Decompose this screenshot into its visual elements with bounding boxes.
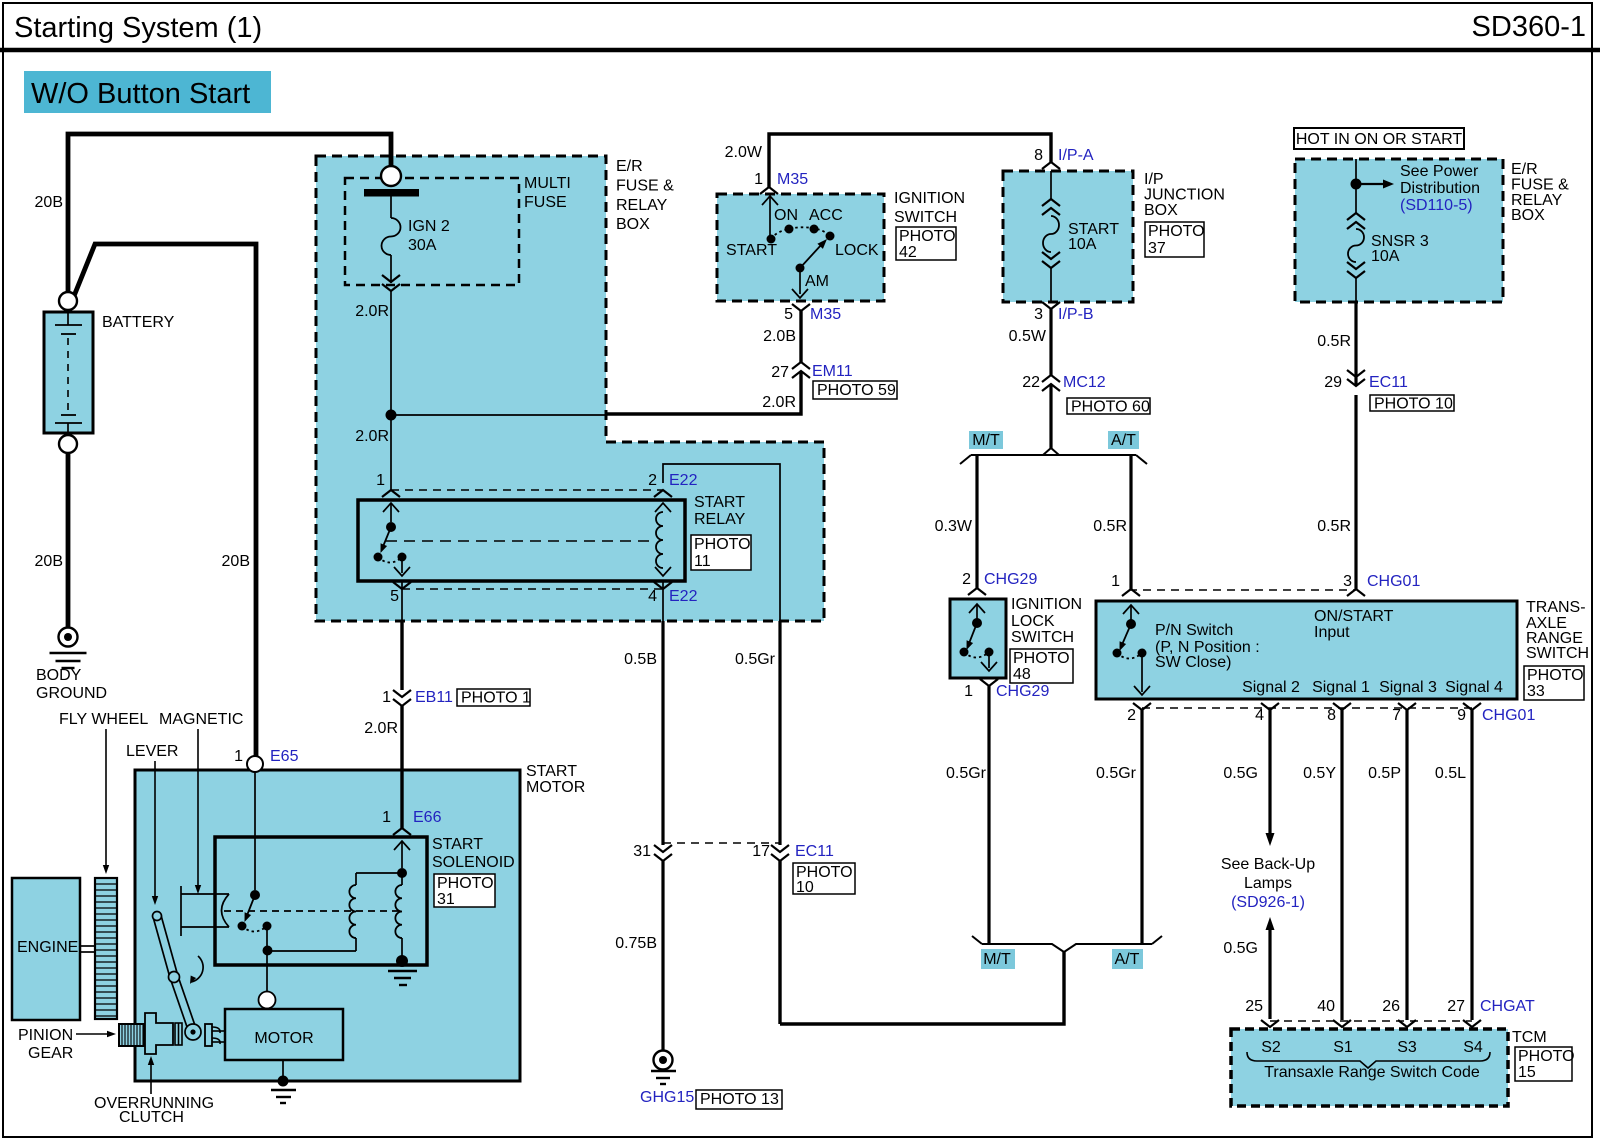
title separator bar [0,48,1600,53]
fuse IGN 2 label [408,218,450,254]
engine-flywheel link [80,946,95,952]
svg-text:0.5L: 0.5L [1435,765,1466,782]
svg-text:0.5W: 0.5W [1009,328,1047,345]
svg-text:PHOTO 59: PHOTO 59 [817,382,896,399]
svg-text:I/P-A: I/P-A [1058,147,1094,164]
transaxle pin 1 [1111,573,1140,596]
svg-text:1: 1 [376,472,385,489]
wire: EB11 to E66 (2.0R) [400,706,403,828]
svg-text:3: 3 [1343,573,1352,590]
M/T A/T option split [960,448,1147,464]
P/N switch internals [1113,605,1151,695]
SNSR 3 fuse feed [1351,159,1362,213]
start relay pin 4 / E22 [648,581,697,621]
svg-text:CHG01: CHG01 [1367,573,1420,590]
svg-text:FLY WHEEL: FLY WHEEL [59,711,148,728]
wire: pin4 to back-up lamps (0.5G) [1266,710,1275,846]
svg-text:BOX: BOX [1144,202,1178,219]
svg-text:BOX: BOX [616,216,650,233]
svg-text:I/P-B: I/P-B [1058,306,1094,323]
svg-text:M35: M35 [810,306,841,323]
wire: MC12 to M/T-A/T split [1049,384,1052,448]
OVERRUNNING CLUTCH label [94,1056,214,1126]
E/R fuse & relay box (left, L-shaped, dashed) [316,156,824,621]
svg-text:37: 37 [1148,240,1166,257]
svg-text:ACC: ACC [809,207,843,224]
start relay pin line (top, dashed) [391,489,663,491]
ENGINE label [17,939,78,956]
svg-text:27: 27 [771,364,789,381]
relay internal dashed link [386,540,655,542]
relay coil [655,503,671,576]
wire label 2.0B [763,328,796,345]
wire label 0.5Y [1303,765,1336,782]
svg-text:7: 7 [1392,707,1401,724]
svg-text:FUSE &: FUSE & [1511,177,1569,194]
PHOTO 10 box (EC11-17) [793,863,855,896]
wire label 0.3W [935,518,973,535]
svg-text:MOTOR: MOTOR [526,779,585,796]
svg-text:E/R: E/R [1511,161,1538,178]
svg-text:20B: 20B [222,553,250,570]
svg-text:2.0R: 2.0R [355,303,389,320]
start relay pin 2 / E22 [648,472,697,497]
svg-text:GROUND: GROUND [36,685,107,702]
fuse START 10A label [1068,221,1119,253]
wire label 0.5P [1368,765,1401,782]
motor terminal [259,992,276,1009]
wire label 0.5G [1223,765,1258,782]
svg-text:E66: E66 [413,809,442,826]
svg-text:GEAR: GEAR [28,1045,73,1062]
wire label 0.5R (to CHG01) [1317,518,1351,535]
svg-text:RELAY: RELAY [694,511,746,528]
multi fuse box (dashed) [345,178,519,285]
wire label 0.5W [1009,328,1047,345]
svg-text:SWITCH: SWITCH [1526,645,1589,662]
TCM box (dashed) [1231,1029,1508,1106]
connector MC12 pin 22 [1022,374,1106,391]
wire: junction to EM11 (2.0R) [391,371,801,415]
P/N switch label [1155,622,1260,671]
svg-text:SWITCH: SWITCH [894,209,957,226]
A/T tag (bottom) [1112,949,1143,969]
START RELAY label [694,494,746,528]
svg-text:MC12: MC12 [1063,374,1106,391]
svg-text:S3: S3 [1397,1039,1417,1056]
svg-text:30A: 30A [408,237,437,254]
svg-text:W/O Button Start: W/O Button Start [31,78,250,110]
wire label 2.0R (EM11) [762,394,796,411]
connector EC11 pin 29 [1324,370,1408,391]
wire: battery negative to body ground (20B) [66,453,71,629]
transaxle pin 7 [1392,703,1416,724]
wire label 20B (to start motor) [222,553,250,570]
PHOTO 1 box [457,689,531,707]
connector M35 pin 5 [784,304,841,323]
svg-text:(SD110-5): (SD110-5) [1400,197,1473,214]
svg-text:BATTERY: BATTERY [102,314,175,331]
body ground label [36,667,107,702]
wire label 2.0R (EB11) [364,720,398,737]
I/P junction box [1003,171,1133,302]
svg-text:FUSE: FUSE [524,194,567,211]
connector CHG29 pin 1 [964,679,1049,700]
svg-text:S1: S1 [1333,1039,1353,1056]
svg-text:P/N Switch: P/N Switch [1155,622,1233,639]
svg-text:5: 5 [390,588,399,605]
svg-text:10A: 10A [1371,248,1400,265]
svg-text:0.5G: 0.5G [1223,765,1258,782]
PHOTO 15 box [1515,1047,1575,1081]
transaxle pin 3 / CHG01 [1343,573,1420,596]
svg-text:I/P: I/P [1144,171,1164,188]
ignition lock switch internals [960,604,998,671]
svg-text:PHOTO: PHOTO [899,228,956,245]
wire label 2.0R [355,303,389,320]
svg-text:ON: ON [774,207,798,224]
svg-text:EC11: EC11 [795,843,834,860]
MULTI FUSE label [524,175,571,211]
svg-text:RELAY: RELAY [616,197,668,214]
title: Starting System (1) [14,12,262,44]
TCM pin line (dashed) [1270,1020,1472,1022]
svg-text:A/T: A/T [1111,432,1136,449]
svg-text:0.5Gr: 0.5Gr [1096,765,1137,782]
connector I/P-B pin 3 [1034,302,1093,323]
page code SD360-1 [1472,11,1586,43]
svg-text:E22: E22 [669,588,698,605]
svg-text:SD360-1: SD360-1 [1472,11,1586,43]
transaxle pin line (top, dashed) [1129,589,1356,591]
TCM pin 26 [1382,998,1416,1027]
MAGNETIC label [159,711,243,894]
svg-text:CHG01: CHG01 [1482,707,1535,724]
IGNITION LOCK SWITCH label [1011,596,1082,646]
svg-text:15: 15 [1518,1064,1536,1081]
svg-text:10A: 10A [1068,236,1097,253]
svg-text:LOCK: LOCK [1011,613,1055,630]
svg-text:48: 48 [1013,666,1031,683]
svg-text:CHG29: CHG29 [984,571,1037,588]
svg-text:LEVER: LEVER [126,743,178,760]
wire: split to CHG29 (0.3W) [975,455,978,588]
START SOLENOID label [432,836,515,871]
relay switch output [394,557,410,576]
PHOTO 10 box (EC11-29) [1370,395,1454,413]
svg-text:25: 25 [1245,998,1263,1015]
svg-text:M/T: M/T [972,432,1000,449]
svg-text:1: 1 [1111,573,1120,590]
start relay box [358,500,685,581]
svg-text:START: START [726,242,777,259]
svg-text:1: 1 [382,809,391,826]
solenoid feed [394,841,410,878]
wire: fuse to start relay pin1 (2.0R) [390,291,392,490]
LEVER label [126,743,178,905]
TCM pin 40 [1317,998,1351,1027]
svg-text:IGN 2: IGN 2 [408,218,450,235]
connector pin 31 [633,843,672,861]
svg-text:CHG29: CHG29 [996,683,1049,700]
M/T tag (bottom) [981,949,1015,969]
wire: battery positive to multifuse (20B) [68,134,391,292]
joint connector dashed link [663,842,780,844]
svg-text:S2: S2 [1261,1039,1281,1056]
svg-text:8: 8 [1327,707,1336,724]
svg-text:A/T: A/T [1115,951,1140,968]
svg-text:2.0R: 2.0R [364,720,398,737]
wire: relay coil pin2 up and over (0.5Gr) [663,464,780,621]
svg-text:IGNITION: IGNITION [1011,596,1082,613]
FLY WHEEL label [59,711,148,874]
svg-text:4: 4 [1255,707,1264,724]
transaxle pin 9 / CHG01 [1457,703,1535,724]
wire: relay pin4 to GHG15 (0.5B/0.75B) [661,621,664,1050]
svg-text:0.75B: 0.75B [615,935,657,952]
svg-text:29: 29 [1324,374,1342,391]
svg-text:SOLENOID: SOLENOID [432,854,515,871]
wire: merge to EC11-17 [780,952,1064,1024]
svg-text:0.5R: 0.5R [1093,518,1127,535]
E/R FUSE & RELAY BOX label (left) [616,158,674,233]
svg-text:MAGNETIC: MAGNETIC [159,711,243,728]
svg-text:40: 40 [1317,998,1335,1015]
W/O Button Start banner [24,71,271,113]
start relay pin 1 [376,472,400,497]
multifuse bus bar [364,189,419,197]
PHOTO 59 box [813,381,897,399]
transaxle pin 4 [1255,703,1279,724]
svg-text:0.3W: 0.3W [935,518,973,535]
GHG15 label [640,1089,694,1106]
svg-text:PHOTO: PHOTO [437,875,494,892]
svg-text:2.0W: 2.0W [725,144,763,161]
svg-text:PHOTO 1: PHOTO 1 [461,690,531,707]
see back-up lamps label [1221,856,1315,911]
wire: pin9 to TCM 27 (0.5L) [1470,710,1473,1020]
see power distribution label [1400,163,1480,214]
svg-text:1: 1 [964,683,973,700]
battery cell symbol [55,312,82,432]
svg-text:0.5B: 0.5B [624,651,657,668]
fuse IGN 2 30A [382,197,401,284]
M/T A/T option merge [972,936,1162,952]
transaxle range switch box [1096,601,1517,699]
wire: M35-5 to EM11 (2.0B) [799,311,802,362]
svg-text:31: 31 [437,891,455,908]
svg-text:1: 1 [234,748,243,765]
svg-text:26: 26 [1382,998,1400,1015]
relay contact input [383,503,399,522]
svg-text:11: 11 [694,553,711,570]
wire label 0.5R [1317,333,1351,350]
svg-text:PINION: PINION [18,1027,73,1044]
svg-text:E/R: E/R [616,158,643,175]
svg-text:0.5Y: 0.5Y [1303,765,1336,782]
svg-text:START: START [694,494,745,511]
ignition switch box [717,194,884,301]
svg-text:0.5Gr: 0.5Gr [735,651,776,668]
svg-text:PHOTO: PHOTO [1013,650,1070,667]
svg-text:LOCK: LOCK [835,242,879,259]
wire label 0.5Gr (E/R) [735,651,776,668]
signal labels [1242,679,1503,696]
wire: SNSR3 to EC11 (0.5R) [1354,302,1357,386]
svg-text:FUSE &: FUSE & [616,178,674,195]
ignition lock switch box [950,599,1006,678]
wire label 0.5R (A/T) [1093,518,1127,535]
TCM brace [1247,1052,1490,1068]
svg-text:PHOTO: PHOTO [1148,223,1205,240]
multifuse input terminal [381,166,401,186]
solenoid switch [238,890,272,932]
lever [153,912,202,1041]
A/T tag (top) [1108,431,1139,449]
PINION GEAR label [18,1027,116,1062]
body ground symbol [50,628,87,669]
svg-text:PHOTO: PHOTO [694,536,751,553]
svg-text:IGNITION: IGNITION [894,190,965,207]
svg-text:31: 31 [633,843,651,860]
svg-text:2: 2 [962,571,971,588]
PHOTO 31 box [434,874,495,908]
svg-text:Distribution: Distribution [1400,180,1480,197]
motor box [225,1009,343,1060]
TCM S2 S1 S3 S4 labels [1261,1039,1483,1056]
svg-text:AM: AM [805,273,829,290]
motor ground [271,1060,296,1103]
ON/START input label [1314,608,1394,641]
svg-text:BOX: BOX [1511,207,1545,224]
TCM pin 27 / CHGAT [1447,998,1535,1027]
relay switch [374,522,407,563]
svg-text:8: 8 [1034,147,1043,164]
shift fork [205,1024,224,1046]
connector EC11 pin 17 [752,843,834,861]
wire label 20B (battery top) [35,194,63,211]
wire label 20B (battery ground) [35,553,63,570]
svg-text:2.0R: 2.0R [355,428,389,445]
START MOTOR label [526,763,585,796]
svg-text:SWITCH: SWITCH [1011,629,1074,646]
svg-text:HOT IN ON OR START: HOT IN ON OR START [1296,131,1462,148]
overrunning clutch body [145,1013,182,1054]
svg-text:PHOTO: PHOTO [1527,667,1584,684]
wire: pin7 to TCM 26 (0.5P) [1405,710,1408,1020]
svg-text:See Power: See Power [1400,163,1479,180]
svg-text:TRANS-: TRANS- [1526,599,1586,616]
svg-text:4: 4 [648,588,657,605]
PHOTO 48 box [1010,649,1073,683]
svg-text:MULTI: MULTI [524,175,571,192]
svg-text:CHGAT: CHGAT [1480,998,1535,1015]
TRANSAXLE RANGE SWITCH label [1526,599,1589,662]
solenoid coils [349,873,402,938]
fly wheel [95,878,117,1019]
svg-text:M/T: M/T [983,951,1011,968]
wire: CHG29 to M/T merge (0.5Gr) [987,686,990,944]
wire label 0.5B [624,651,657,668]
pinion gear [119,1024,144,1046]
start motor box [135,770,520,1081]
IGNITION SWITCH label [894,190,965,226]
wire: pin2 to A/T merge (0.5Gr) [1140,710,1143,944]
svg-text:PHOTO 10: PHOTO 10 [1374,396,1453,413]
svg-text:33: 33 [1527,683,1545,700]
wire: E/R to EC11-17 (0.5Gr) [778,621,781,1024]
wire label 0.75B [615,935,657,952]
svg-text:(SD926-1): (SD926-1) [1231,894,1305,911]
ignition switch internals [762,196,835,298]
transaxle pin 2 [1127,703,1151,724]
svg-text:CLUTCH: CLUTCH [119,1109,184,1126]
wire label 0.5G (lower) [1223,940,1258,957]
svg-text:PHOTO: PHOTO [1518,1048,1575,1065]
svg-text:10: 10 [796,879,814,896]
wire: TCM 25 up arrow (0.5G) [1266,917,1275,1019]
wire: pin8 to TCM 40 (0.5Y) [1340,710,1343,1020]
svg-text:0.5R: 0.5R [1317,518,1351,535]
solenoid plunger link (dashed) [224,910,400,912]
fuse START 10A [1042,171,1060,302]
svg-text:Signal 4: Signal 4 [1445,679,1503,696]
PHOTO 33 box [1524,666,1584,700]
switch to motor wire [263,927,273,992]
connector EM11 pin 27 [771,362,853,381]
M/T tag (top) [969,431,1003,449]
svg-text:EC11: EC11 [1369,374,1408,391]
svg-text:5: 5 [784,306,793,323]
fuse SNSR 3 10A [1347,213,1365,302]
battery body [44,312,93,433]
svg-text:PHOTO 13: PHOTO 13 [700,1091,779,1108]
wire label 0.5Gr [946,765,987,782]
wire: EC11 to transaxle pin3 (0.5R) [1354,395,1357,589]
svg-text:S4: S4 [1463,1039,1483,1056]
junction node [386,410,397,421]
svg-text:2: 2 [648,472,657,489]
svg-text:ON/START: ON/START [1314,608,1394,625]
see power distribution arrow [1356,180,1394,189]
wire label 0.5L [1435,765,1466,782]
wire: relay pin5 to EB11 (2.0R) [400,621,403,690]
transaxle pin 8 [1327,703,1351,724]
svg-text:M35: M35 [777,171,808,188]
svg-text:EM11: EM11 [812,363,853,380]
svg-text:See Back-Up: See Back-Up [1221,856,1315,873]
transaxle pin line (bottom, dashed) [1142,707,1472,709]
svg-text:Lamps: Lamps [1244,875,1292,892]
battery bottom terminal [59,435,77,453]
solenoid coil return [267,938,356,951]
svg-text:Signal 2: Signal 2 [1242,679,1300,696]
svg-text:MOTOR: MOTOR [254,1030,313,1047]
I/P JUNCTION BOX label [1144,171,1225,219]
svg-text:PHOTO 60: PHOTO 60 [1071,399,1150,416]
ignition switch position labels [726,207,879,290]
wire label 2.0R (below junction) [355,428,389,445]
connector E65 [234,748,298,772]
wire label 2.0W [725,144,763,161]
start relay pin 5 [390,581,411,621]
multifuse output chevrons [382,275,400,291]
svg-text:17: 17 [752,843,770,860]
engine box [12,878,80,1020]
svg-text:0.5Gr: 0.5Gr [946,765,987,782]
svg-text:0.5R: 0.5R [1317,333,1351,350]
svg-text:START: START [526,763,577,780]
